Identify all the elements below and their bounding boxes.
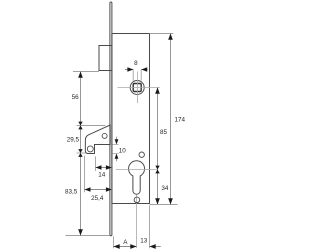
dim 14 arrows <box>96 165 112 170</box>
spindle hub circle <box>130 81 144 95</box>
spindle square hole <box>133 84 141 92</box>
dim 174 top tick <box>150 33 174 35</box>
cylinder centerline vertical <box>136 195 138 248</box>
tick y71.5 <box>73 71 99 73</box>
dim 25,4 line <box>85 189 112 191</box>
dim 14 line <box>96 167 112 169</box>
svg-text:34: 34 <box>161 185 169 192</box>
faceplate <box>110 2 112 236</box>
svg-text:13: 13 <box>140 238 148 245</box>
latch lower hole <box>87 146 93 152</box>
dim A extension <box>113 236 115 248</box>
dim 85 34 line <box>157 88 159 205</box>
dim A line <box>114 246 137 248</box>
dim 25,4 extension <box>84 156 86 193</box>
tick y152.5 <box>77 152 86 154</box>
dim 10 arrows <box>115 139 119 158</box>
lock body <box>112 34 150 204</box>
dim 174 bottom tick <box>150 204 178 206</box>
svg-text:14: 14 <box>98 172 106 179</box>
svg-text:10: 10 <box>119 148 127 155</box>
dim 174 line <box>170 34 172 205</box>
dim 8 lines <box>125 69 148 71</box>
dim 34 arrows <box>155 170 160 205</box>
svg-text:85: 85 <box>160 129 168 136</box>
latch guide box <box>99 46 112 71</box>
tick y125.5 <box>77 125 106 127</box>
svg-text:25,4: 25,4 <box>91 195 104 202</box>
tick y235.5 <box>65 235 110 237</box>
dim 13 arrow <box>150 244 156 249</box>
dim 174 arrows <box>168 34 173 205</box>
dim 10 lines <box>116 137 118 161</box>
svg-text:8: 8 <box>134 60 138 67</box>
screw hole upper <box>139 152 144 157</box>
dim A arrows <box>114 244 137 249</box>
dim 29,5 arrows <box>78 126 82 154</box>
cylinder centerline horizontal <box>116 169 158 171</box>
svg-text:29,5: 29,5 <box>67 136 80 143</box>
spindle centerline vertical <box>137 72 139 104</box>
dim 14 extension <box>95 156 97 171</box>
left dim line 56 29,5 83,5 <box>80 72 82 236</box>
svg-text:83,5: 83,5 <box>65 188 78 195</box>
spindle centerline horizontal <box>118 87 160 89</box>
dim 8 arrows <box>127 67 147 72</box>
dim 13 line <box>150 246 161 248</box>
dim 85 arrows <box>155 88 160 170</box>
svg-text:56: 56 <box>72 94 80 101</box>
dim 25,4 arrows <box>85 187 112 192</box>
dim 56 arrows <box>78 72 83 126</box>
dim 13 extension <box>149 205 151 248</box>
dim 8 extension lines <box>133 70 141 81</box>
dim 10 ticks <box>112 145 118 154</box>
latch hook <box>85 125 110 154</box>
latch pivot hole <box>102 133 107 138</box>
dim 83,5 arrows <box>78 153 83 236</box>
svg-text:174: 174 <box>175 116 186 123</box>
euro cylinder hole <box>129 161 145 194</box>
screw hole lower <box>134 197 140 203</box>
